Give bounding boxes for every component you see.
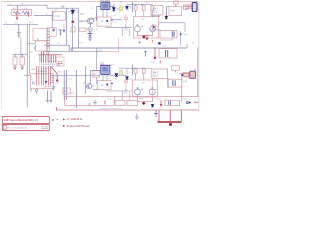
connector column box L2 (35, 41, 46, 51)
power rail A left (44, 45, 69, 51)
ground GND7 (46, 91, 49, 103)
emitter vertical (89, 23, 91, 27)
svg-text:z: z (144, 49, 145, 51)
wire VCC rail top-left (7, 5, 79, 8)
blue node br (187, 102, 189, 104)
bottom boxes (115, 100, 125, 105)
wire under opamp ch2 (106, 90, 133, 92)
ground hang mid (93, 100, 97, 105)
svg-text:R value 1/4W 5% carb: R value 1/4W 5% carb (67, 125, 91, 128)
wire v x180.6 (180, 31, 182, 45)
wire mid-left branch (13, 53, 28, 55)
red blob below bus (169, 123, 172, 126)
wire y29.9 (150, 30, 160, 31)
ch2 pin box (57, 57, 65, 66)
lower dashes (42, 127, 49, 129)
wire v x126 ch2 (125, 78, 127, 91)
box A2 right ch2 (152, 69, 168, 78)
svg-text:1 2 3 4 5 6 7: 1 2 3 4 5 6 7 (36, 71, 48, 73)
wire Q1 base (79, 20, 90, 22)
connector J2 (192, 3, 197, 12)
red dashes inside CN1 (45, 86, 51, 88)
ch2 rail stub (100, 107, 122, 109)
power rail B right (71, 48, 187, 51)
box on x126 (124, 17, 127, 20)
ground gray bottom (135, 113, 139, 119)
wire drop to ground (18, 24, 20, 33)
ground below x126 (125, 27, 128, 29)
wire v x122 (121, 27, 123, 36)
box on x126 ch2 (124, 80, 127, 83)
wire R4 leads (14, 54, 16, 67)
led LED3 yellow (120, 71, 123, 76)
svg-text:AMP Stereo Marshall 8004 1/1: AMP Stereo Marshall 8004 1/1 (4, 119, 39, 122)
red rail mid (38, 54, 62, 56)
ground GND2 (13, 67, 17, 69)
resistor R5 box (20, 57, 25, 65)
bus vertical left pair (26, 25, 28, 108)
wire bus corner (27, 43, 35, 45)
resistor R1 zigzag (13, 11, 21, 14)
box R opto (49, 28, 56, 37)
svg-text:C24: C24 (183, 81, 188, 83)
crystal box X1 (174, 1, 179, 4)
gray dash (56, 118, 59, 120)
node plus blue (52, 29, 54, 31)
transistor Q1 (88, 18, 94, 24)
wire v x122 ch2 (121, 91, 123, 100)
capacitor C14 (166, 50, 168, 57)
svg-text:PH 2: PH 2 (153, 72, 159, 74)
resistor R7 box horizontal (79, 28, 86, 31)
wires to J3 (179, 73, 190, 76)
IC U1 inner mark (103, 4, 108, 8)
small box top ch2 (172, 66, 180, 71)
led box L1 (152, 25, 155, 29)
wire v x166.3 (165, 7, 167, 16)
wire y51 run (44, 50, 100, 52)
wire left rail J-IN (3, 24, 38, 26)
red link to gnd rail (56, 107, 58, 110)
resistor R8 box (134, 6, 137, 10)
transistor Q1 internals (89, 19, 92, 24)
wire v x141.7 (141, 4, 143, 5)
diode D8 blue (151, 104, 154, 107)
wire v x129.8 ch2 (129, 92, 131, 99)
sheet border left (0, 2, 2, 110)
svg-text:K-in: K-in (56, 14, 61, 18)
wires to J2 (184, 5, 193, 8)
wire U4 right (110, 74, 126, 76)
bullet 1 (63, 118, 65, 120)
box K2 (169, 7, 182, 16)
red tick ch2 (159, 60, 161, 63)
wire v x126 (125, 15, 127, 28)
enclosure ch2 bottom (65, 96, 199, 105)
gnd rail pink (57, 109, 199, 111)
polarity diamond ch2 (142, 102, 146, 105)
svg-text:PH 1: PH 1 (153, 9, 159, 11)
ground GND3 (20, 67, 24, 69)
resistor R6 box (71, 27, 75, 32)
wire v x85.6 (85, 66, 87, 94)
resistor R2 zigzag (22, 11, 30, 14)
svg-text:R10: R10 (80, 13, 85, 16)
node dot x180 (180, 33, 182, 35)
wire v x129.8 (129, 29, 131, 36)
ground below x126 ch2 (125, 90, 128, 92)
ch2 vertical a (63, 70, 65, 100)
diode D6 blue (115, 74, 118, 77)
IC U1 body (101, 3, 110, 10)
resistor R4 box (13, 57, 17, 65)
wire ground to R5 (20, 37, 22, 57)
wire red stub R2 (28, 11, 30, 17)
svg-text:R19: R19 (184, 35, 189, 37)
node dot CN1 (45, 81, 47, 83)
opamp box U3 (97, 17, 111, 26)
rev cell (3, 125, 6, 129)
wire below jack (31, 88, 37, 94)
wire into CN1 left (24, 74, 31, 76)
cap in box (169, 101, 171, 105)
arrow in L2 (34, 45, 37, 48)
sheet border top (2, 1, 199, 3)
speaker LS3 (135, 89, 141, 95)
wire v x113.8 (113, 4, 115, 12)
vertical V4 (96, 7, 98, 22)
node dot blue (63, 30, 65, 32)
wire Q1 collector (92, 18, 97, 19)
speaker LS1 (135, 26, 141, 32)
svg-text:8 7 6 5: 8 7 6 5 (49, 61, 56, 63)
pin column red dashes (47, 29, 49, 47)
svg-text:D = 1N4148 x4: D = 1N4148 x4 (67, 119, 83, 121)
wire under opamp (106, 26, 133, 28)
diode cluster Q2b (88, 27, 92, 31)
wire Q3 base (86, 85, 89, 87)
red comb through CN1 (37, 66, 51, 86)
wire U3 out (111, 19, 122, 21)
teal node cluster (144, 51, 147, 57)
rail end tick (186, 44, 188, 49)
wire input drop (16, 5, 18, 11)
resistor R29 box (142, 69, 145, 73)
wire v x185 (184, 23, 186, 32)
wire spk feeds ch2 (136, 67, 144, 80)
svg-text:C12: C12 (124, 30, 129, 32)
input stage box U2 (53, 12, 65, 20)
transistor Q3 internals (88, 84, 90, 88)
svg-text:+9V: +9V (50, 66, 54, 68)
capacitor C13 (172, 31, 174, 36)
plus marks ch2 (141, 88, 157, 90)
svg-text:22.1: 22.1 (153, 76, 158, 78)
box C14 (159, 49, 177, 58)
diode D1 blue (71, 10, 74, 13)
speaker box SP2 (133, 80, 158, 97)
red arrow mid (146, 35, 148, 40)
capacitor C2 below Q1 (88, 31, 93, 38)
diode D4 blue (126, 6, 129, 9)
vertical V3 (78, 8, 80, 48)
IC U4 body (101, 65, 110, 74)
transistor Q3 (87, 84, 92, 89)
ground blue bottom (154, 110, 158, 116)
wire v x197.8 (197, 47, 199, 96)
ch2 red diagonal (52, 68, 57, 80)
ground GND5 (58, 30, 62, 35)
vertical V2 top (72, 8, 74, 51)
box C13 (160, 30, 177, 38)
red stub below rail (154, 48, 156, 57)
wires IC1 to U3 (103, 10, 107, 17)
node dot U5 out (111, 83, 112, 84)
wire U1 right (110, 6, 114, 8)
box K1 (151, 6, 163, 15)
ground GND4 (88, 38, 92, 41)
red pad ch2 (56, 80, 58, 82)
plus mark (139, 41, 141, 43)
red dash br (194, 101, 198, 103)
jack box CN1 (31, 74, 54, 89)
comb verticals (40, 51, 56, 62)
bullet 2 (63, 125, 65, 127)
speaker terminals ch2 (137, 87, 139, 88)
polarity diamond dark red (142, 35, 146, 38)
led LED2 yellow (120, 6, 123, 11)
red arrow bottom (160, 100, 162, 106)
pin column pair (47, 28, 49, 52)
wire box bottom link (160, 38, 172, 40)
svg-text:22.1: 22.1 (153, 12, 158, 14)
wire R5 leads (21, 54, 23, 67)
wire v x181.8 ch2 (181, 76, 183, 102)
wire A2 drop (151, 79, 153, 96)
red mark left of bullets (52, 119, 54, 121)
right top: wire y23.5 (159, 22, 186, 24)
svg-text:9V: 9V (62, 6, 65, 9)
wire v x97 ch2 (96, 47, 98, 84)
wire v x132.5 ch2 (132, 65, 134, 75)
ground GND1 (17, 33, 21, 38)
speaker LS4 (149, 89, 155, 95)
wire K2 top link (166, 6, 169, 8)
IC U4 inner mark (103, 67, 108, 71)
wire X1 drop (175, 4, 177, 7)
led dot (153, 26, 155, 28)
connector column box L1 (33, 28, 47, 40)
svg-text:BATT 9V: BATT 9V (151, 15, 161, 18)
box RST (63, 88, 70, 94)
resistor R28 box (134, 69, 137, 73)
speaker U wire (137, 32, 152, 36)
amp module enclosure ch1 (64, 24, 119, 52)
title block lower (2, 124, 49, 130)
red tick (151, 40, 153, 42)
led LED1 red (72, 21, 75, 23)
plus mark bottom (89, 103, 91, 105)
vertical V1 (66, 8, 68, 45)
wire U1 left (97, 6, 101, 8)
wire x168 drop (167, 78, 169, 87)
wire v x90.5 (90, 70, 92, 83)
IC U4 pins (101, 65, 109, 75)
connector feed box (184, 5, 189, 9)
ch2 mid wires (50, 75, 100, 77)
node blue above rail (159, 42, 161, 44)
speaker terminals (137, 24, 139, 25)
ground GND8 (50, 91, 53, 103)
speaker LS2 (150, 26, 156, 32)
diode D5 blue (165, 16, 168, 19)
pink box bottom right (165, 100, 180, 105)
red feed pair (42, 51, 44, 62)
ch2 vertical b (66, 70, 68, 100)
box R22 (93, 71, 100, 77)
diode D7 blue (126, 77, 129, 80)
small mark in CN1 (32, 82, 34, 84)
pin cluster red dashes (58, 62, 63, 65)
wire y89.7 (93, 89, 101, 91)
red pad (154, 57, 156, 59)
wire red stub R1 (16, 11, 18, 19)
plus marks (141, 25, 158, 27)
diode D3 blue (112, 8, 115, 11)
title block outer (2, 116, 49, 123)
IC U1 pins (102, 2, 110, 10)
wire drop x52.2 (51, 10, 53, 28)
connector feed box ch2 (183, 72, 189, 77)
resistor network RN1 box (12, 10, 32, 16)
bus vertical left pair b (29, 25, 31, 74)
node dot U3 out (111, 19, 112, 20)
svg-text:file: stereo-8004.sch: file: stereo-8004.sch (7, 126, 27, 129)
thick red bus bar (158, 121, 182, 123)
wire v x132.5 (132, 2, 134, 12)
bottom row: red tick (104, 100, 106, 104)
wire spk feeds (136, 4, 153, 16)
node dot ch2 (181, 74, 183, 76)
jack pin dashes red (52, 75, 54, 82)
resistor R9b box (151, 6, 154, 10)
box below ch2 (168, 79, 182, 87)
wire U4 left (91, 69, 101, 71)
red bus verticals (159, 111, 181, 122)
wire into U2 (34, 14, 53, 16)
speaker U wire ch2 (138, 95, 153, 102)
ground GND6 (52, 87, 56, 90)
resistor R9 box (142, 6, 145, 10)
capacitor C24 (173, 80, 175, 86)
wire top-right run (127, 3, 152, 5)
ch2 vertical c (75, 70, 77, 108)
wires IC2 to U5 (103, 75, 107, 80)
wire top-right run ch2 (119, 67, 152, 69)
opamp box U5 (98, 81, 112, 90)
wire drop ch2 (175, 70, 177, 72)
connector J3 (190, 71, 196, 78)
circle below CN1 (35, 89, 38, 92)
sheet border right (198, 2, 200, 111)
speaker box SP1 (134, 17, 159, 39)
